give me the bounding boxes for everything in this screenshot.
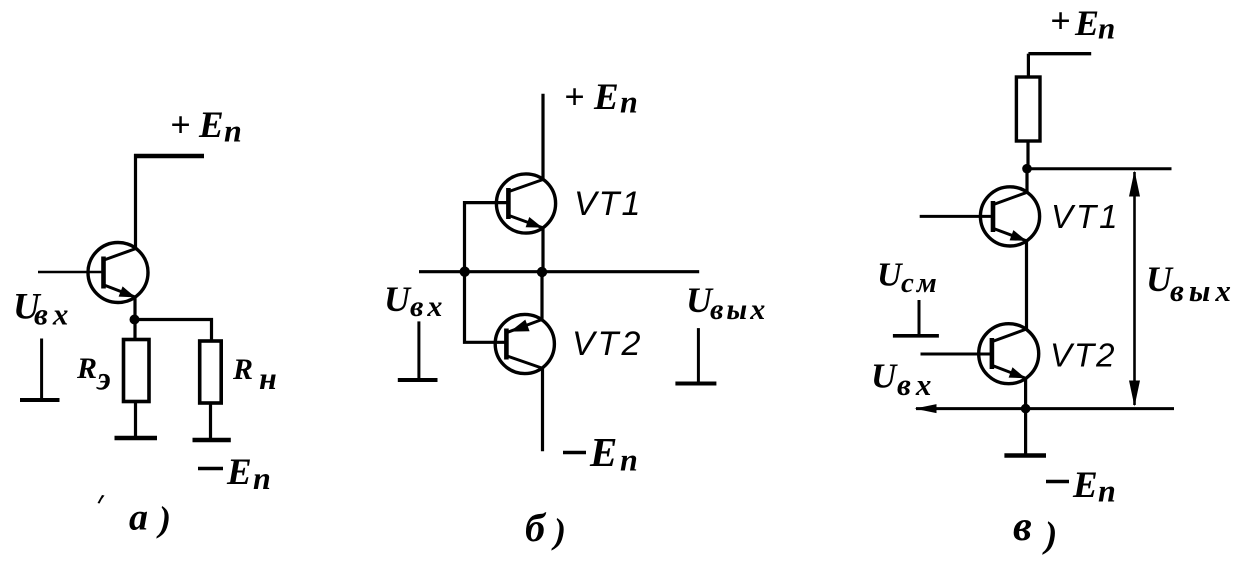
wire VT2 base (v)	[921, 353, 991, 356]
svg-text:вх: вх	[897, 367, 936, 402]
wire VT1 emitter to VT2 (v)	[1025, 241, 1028, 329]
label b)	[525, 505, 566, 551]
transistor VT (a)	[88, 243, 148, 303]
wire VT1 base (v)	[920, 215, 992, 218]
wire base (a)	[38, 271, 102, 273]
label -Ep (v)	[1046, 465, 1116, 509]
svg-text:п: п	[1098, 473, 1116, 509]
svg-text:в: в	[1013, 504, 1032, 550]
svg-text:VT1: VT1	[574, 185, 642, 223]
svg-text:п: п	[620, 84, 638, 120]
label Rn (a)	[232, 353, 277, 396]
svg-text:вых: вых	[1170, 273, 1236, 308]
resistor Rn (a)	[200, 341, 222, 403]
voltage reference bar under Uvx (b)	[417, 321, 420, 379]
resistor Re (a)	[124, 340, 150, 402]
svg-text:R: R	[76, 352, 97, 385]
svg-text:E: E	[226, 452, 252, 493]
wire VT1 base bend (b)	[465, 203, 508, 343]
svg-text:E: E	[1072, 465, 1098, 506]
wire resistor to node (v)	[1026, 141, 1029, 170]
label VT2 (v)	[1050, 337, 1117, 374]
label VT2 (b)	[572, 325, 643, 363]
voltage reference bar under Uvx (a)	[40, 339, 43, 400]
voltage reference bar under Uvyx (b)	[697, 328, 700, 382]
label VT1 (b)	[574, 185, 642, 223]
svg-text:п: п	[1098, 11, 1115, 46]
label Uvx (v)	[871, 357, 936, 403]
svg-text:б: б	[525, 505, 547, 550]
label VT1 (v)	[1051, 198, 1121, 235]
label Uvx (b)	[384, 279, 446, 323]
wire below Re (a)	[134, 402, 137, 439]
node input (b)	[460, 267, 470, 277]
transistor VT1 (b)	[496, 174, 555, 233]
node (a)	[130, 315, 140, 325]
wire collector (a)	[134, 154, 137, 250]
label a)	[129, 497, 171, 540]
svg-text:): )	[156, 499, 171, 539]
svg-text:U: U	[877, 257, 904, 294]
input arrow on bottom line (v)	[915, 404, 937, 413]
tick mark (a)	[98, 495, 105, 504]
svg-text:E: E	[589, 429, 617, 475]
measurement arrow Uvyx (v)	[1129, 171, 1140, 407]
svg-text:вх: вх	[410, 290, 446, 323]
wire input line (b)	[419, 270, 699, 273]
voltage reference bar under Ucm (v)	[918, 300, 921, 335]
label v)	[1013, 504, 1057, 556]
label Uvyx (v)	[1146, 259, 1236, 308]
node output (b)	[537, 267, 547, 277]
wire +Ep rail (v)	[1028, 52, 1091, 55]
label +Ep (b)	[564, 77, 638, 120]
wire node to ground (v)	[1024, 409, 1027, 455]
wire below Rn (a)	[209, 403, 212, 440]
svg-text:): )	[551, 511, 566, 551]
svg-text:U: U	[384, 279, 412, 319]
transistor VT1 (v)	[980, 187, 1039, 246]
svg-text:E: E	[198, 105, 224, 146]
wire VT1 emitter (b)	[541, 228, 544, 272]
wire +Ep rail (a)	[134, 154, 204, 159]
label +Ep (a)	[170, 105, 242, 149]
node collector VT1 (v)	[1022, 164, 1032, 174]
svg-text:вх: вх	[34, 297, 73, 332]
wire VT2 emitter to node (v)	[1024, 378, 1027, 410]
node emitter (v)	[1021, 404, 1031, 414]
label -Ep (a)	[198, 452, 271, 496]
wire output top line (v)	[1027, 167, 1172, 170]
svg-text:э: э	[96, 362, 111, 398]
label Ucm (v)	[877, 257, 940, 300]
wire bottom line (v)	[916, 407, 1174, 410]
wire emitter to node (a)	[133, 297, 136, 340]
wire rail to resistor (v)	[1027, 54, 1030, 78]
svg-text:п: п	[253, 460, 271, 496]
svg-text:н: н	[259, 360, 277, 396]
svg-text:VT2: VT2	[1050, 337, 1117, 374]
svg-text:VT1: VT1	[1051, 198, 1121, 235]
wire VT2 emitter (b)	[540, 272, 543, 320]
svg-text:+: +	[170, 105, 191, 145]
wire node to Rn (a)	[135, 320, 212, 343]
svg-text:см: см	[901, 267, 940, 299]
label +Ep (v)	[1050, 1, 1115, 46]
ground under Re (a)	[115, 436, 158, 441]
wire VT1 collector (v)	[1025, 169, 1028, 193]
svg-text:E: E	[1074, 3, 1099, 43]
transistor VT2 (b)	[495, 314, 554, 373]
svg-text:R: R	[232, 353, 253, 386]
label -Ep (b)	[563, 429, 638, 478]
ground (v)	[1004, 453, 1046, 458]
svg-text:): )	[1042, 515, 1057, 556]
label Re (a)	[76, 352, 111, 398]
ground under Rn (a)	[193, 438, 231, 443]
wire VT2 collector to -Ep (b)	[541, 368, 544, 451]
svg-text:а: а	[129, 497, 148, 539]
svg-text:E: E	[593, 77, 619, 118]
wire +Ep supply (b)	[541, 94, 544, 180]
svg-text:вых: вых	[710, 293, 768, 326]
svg-text:+: +	[1050, 1, 1071, 41]
resistor R (v)	[1016, 77, 1040, 141]
svg-text:+: +	[564, 77, 585, 117]
label Uvx (a)	[13, 287, 73, 332]
svg-text:VT2: VT2	[572, 325, 643, 363]
transistor VT2 (v)	[979, 324, 1039, 384]
svg-text:п: п	[620, 442, 638, 478]
label Uvyx (b)	[686, 280, 768, 326]
svg-text:п: п	[224, 113, 242, 149]
svg-text:U: U	[871, 357, 898, 396]
